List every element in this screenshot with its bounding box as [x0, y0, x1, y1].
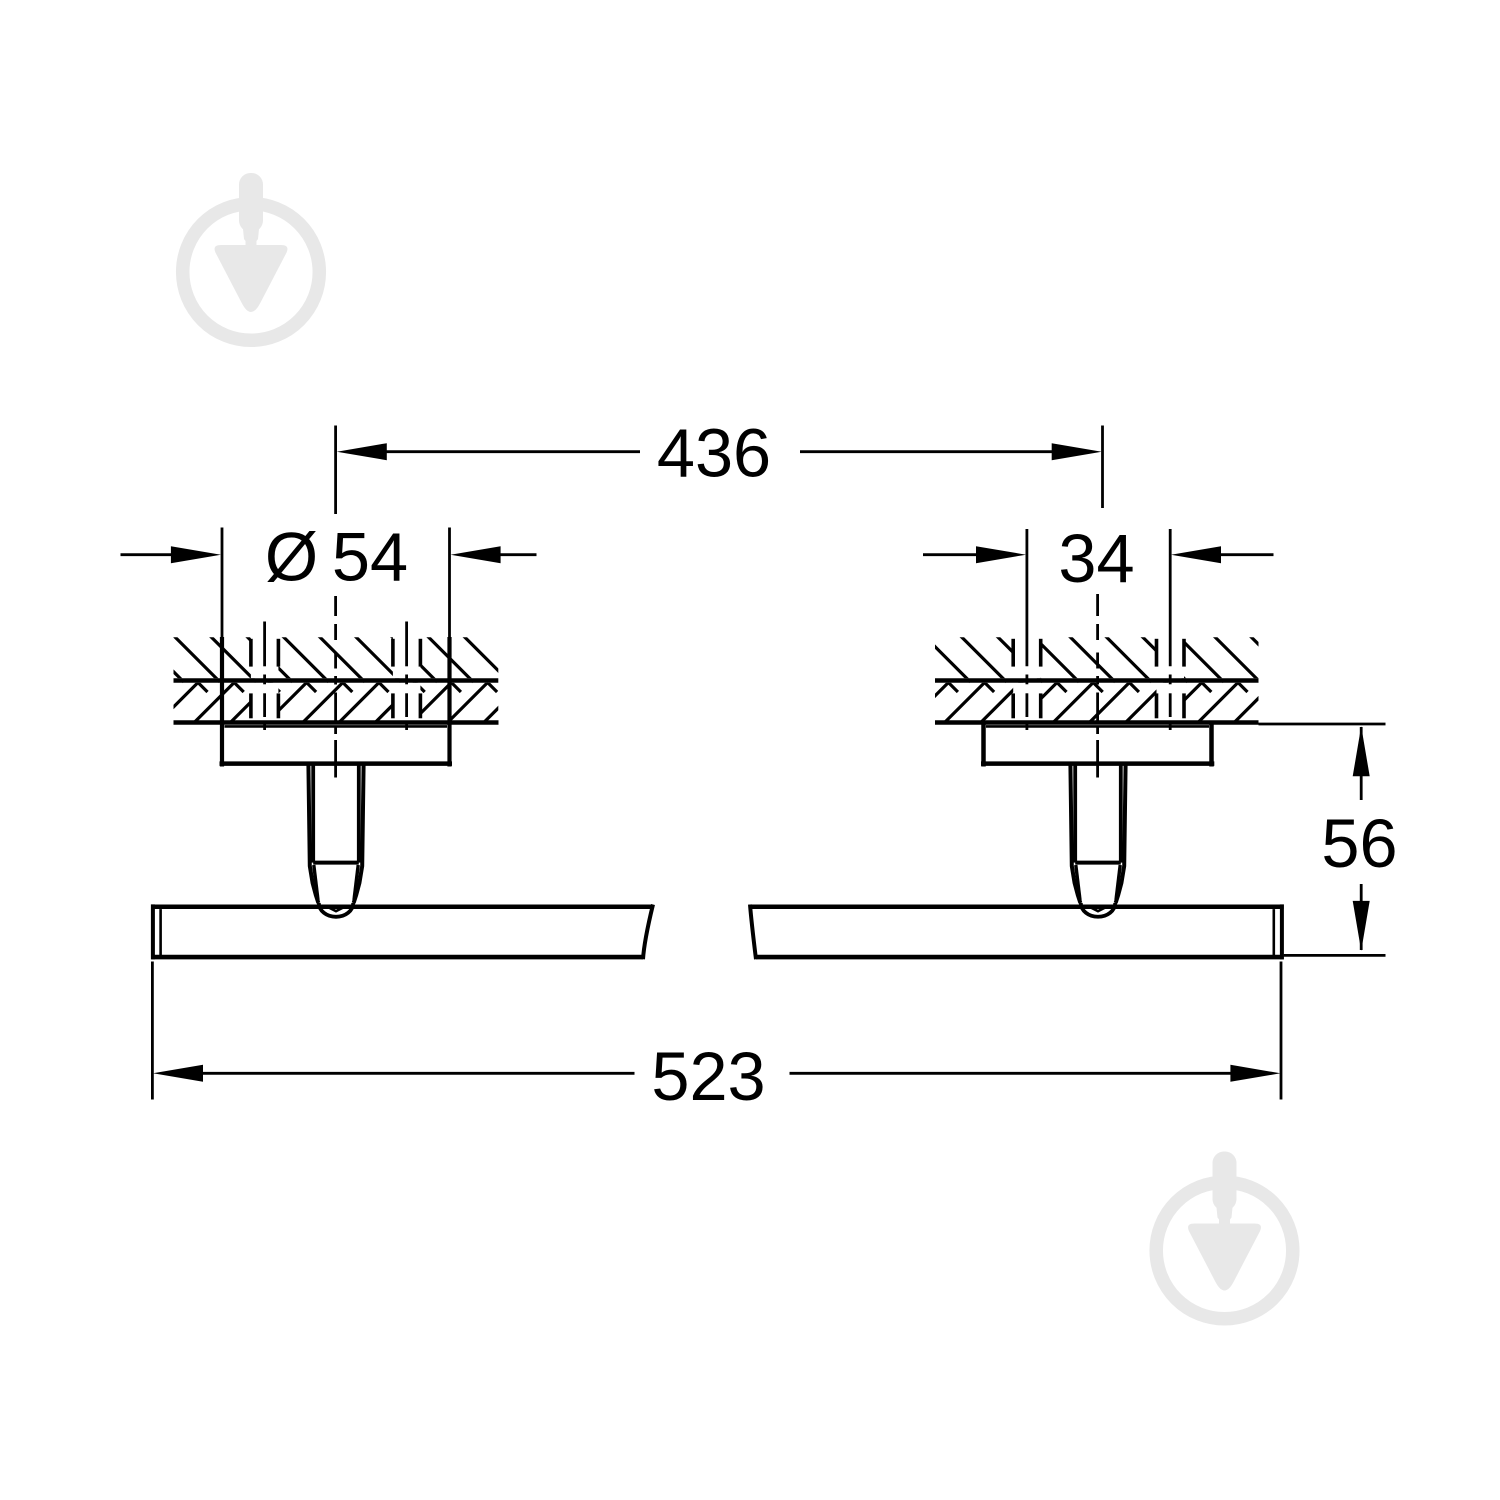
extension of right wall back line (56 dim top reference): [1259, 723, 1386, 726]
svg-text:34: 34: [1058, 520, 1134, 597]
dimension 436: [386, 426, 1103, 509]
right mount hole centerline A (34 left extension): [1026, 529, 1029, 730]
towel bar bottom edge: [151, 955, 1283, 960]
watermark logo top-left: [183, 173, 320, 340]
towel bar left end cap: [153, 904, 161, 959]
svg-text:523: 523: [651, 1038, 765, 1115]
right mounting pin: [1070, 764, 1125, 917]
towel bar top edge: [151, 904, 1283, 909]
left mounting pin: [308, 764, 363, 917]
right wall hatch upper band: [909, 636, 1296, 722]
left wall hatch upper band: [138, 636, 546, 722]
right mount hole centerline B (34 right extension): [1169, 529, 1172, 730]
left mount hole centerline B: [405, 622, 408, 731]
right mount centerline (dash-dot): [1096, 594, 1099, 778]
left mount hole centerline A: [263, 622, 266, 731]
svg-text:Ø 54: Ø 54: [265, 519, 408, 596]
towel bar right end cap: [1274, 904, 1282, 959]
left wall back line: [174, 720, 499, 725]
left mount centerline (dash-dot, 436 left extension): [334, 426, 337, 778]
right wall hatch lower band: [909, 636, 1296, 722]
towel bar break edges: [643, 905, 756, 960]
watermark logo bottom-right: [1156, 1152, 1293, 1319]
left wall face line: [174, 678, 499, 683]
dimension 523: [152, 962, 1281, 1100]
svg-text:436: 436: [657, 414, 771, 491]
drill hole clearances and hole edge lines: [251, 637, 1184, 721]
dimension 34: [923, 553, 1274, 556]
right wall back line: [935, 720, 1259, 725]
dimension Ø54: [121, 553, 537, 556]
right rosette: [981, 723, 1214, 767]
svg-text:56: 56: [1321, 805, 1397, 882]
dimension 56: [1284, 727, 1386, 955]
right wall face line: [935, 678, 1259, 683]
left wall hatch lower band: [138, 636, 546, 722]
left rosette: [220, 528, 453, 767]
